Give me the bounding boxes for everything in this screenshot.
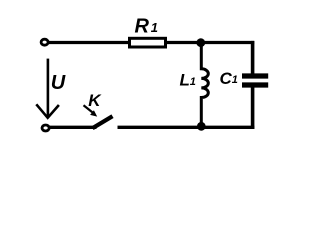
switch K blade — [93, 116, 113, 128]
label L1 — [180, 71, 196, 90]
wire bottom left (terminal to switch) — [50, 126, 97, 129]
terminal bottom-left — [42, 125, 49, 131]
label R1 — [135, 16, 159, 38]
wire right vertical top (corner to capacitor) — [251, 41, 255, 74]
wire bottom right (switch to right corner) — [118, 126, 255, 129]
svg-text:U: U — [51, 72, 66, 94]
label C1 — [220, 69, 238, 88]
svg-text:1: 1 — [190, 76, 196, 88]
terminal top-left — [41, 39, 48, 45]
wire top (terminal to resistor) — [49, 41, 130, 44]
svg-text:C: C — [220, 69, 233, 88]
capacitor C1 bottom plate — [242, 82, 268, 87]
inductor L1 — [201, 43, 208, 127]
junction node bottom — [197, 122, 206, 131]
wire top (resistor to right corner) — [167, 41, 254, 44]
svg-text:R: R — [135, 16, 150, 38]
capacitor C1 top plate — [242, 73, 268, 78]
svg-text:L: L — [180, 71, 190, 90]
wire right vertical bottom (capacitor to bottom wire) — [251, 88, 255, 129]
arrow switch closing direction — [84, 105, 98, 116]
arrow U source voltage — [36, 59, 59, 118]
resistor R1 — [130, 38, 166, 47]
svg-text:1: 1 — [232, 74, 238, 86]
svg-text:K: K — [88, 91, 102, 110]
junction node top — [196, 38, 205, 47]
svg-text:1: 1 — [151, 20, 158, 35]
